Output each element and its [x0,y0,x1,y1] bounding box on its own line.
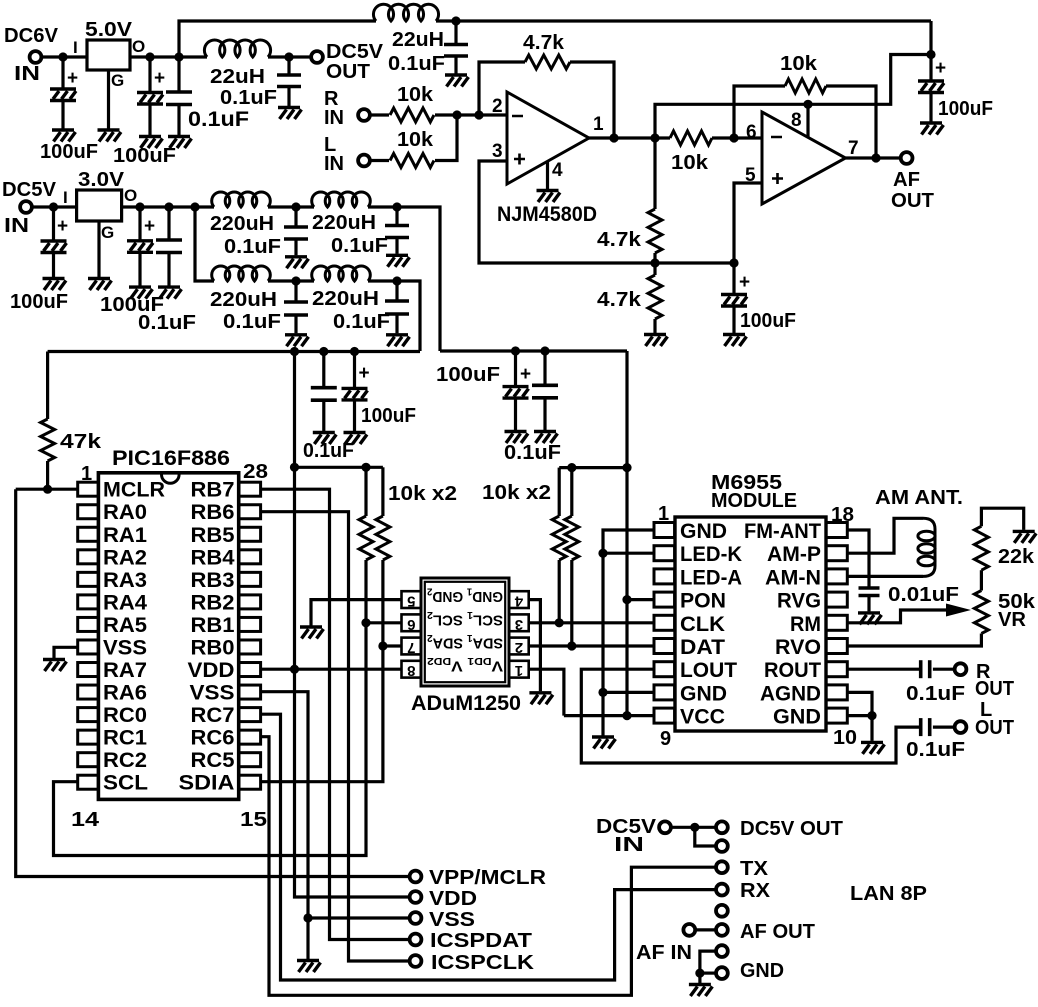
M6955 pin 18 FM-ANT box [826,523,847,538]
antenna coil AM [923,518,935,576]
wire [543,351,546,385]
PIC pin 1 MCLR box [78,482,99,496]
node junction [303,913,312,922]
wire [138,207,141,241]
svg-text:PON: PON [680,590,726,613]
ADuM pin 5 box [402,591,422,608]
wire 22k top to ground [981,508,1023,530]
PIC pin 19 VSS box [239,685,261,699]
PIC pin 26 RB5 box [239,527,261,541]
svg-text:RC0: RC0 [103,704,147,727]
svg-text:DAT: DAT [680,636,725,659]
svg-text:IN: IN [4,215,29,237]
svg-text:RA5: RA5 [103,614,147,637]
wire [370,113,389,116]
M6955 pin 16 AM-N box [826,569,847,584]
wire [933,725,954,728]
ADuM pin 1 box [509,661,529,678]
svg-text:2: 2 [492,96,503,117]
wire [52,253,55,278]
ground [386,255,410,266]
wire [867,596,870,612]
resistor R6 4.7k [648,275,662,319]
wire op-amp ground pin4 [546,162,549,190]
wire PIC VSS8 to ground [54,647,78,658]
svg-text:+: + [935,58,946,79]
wire M6955 PON [627,598,654,601]
svg-text:RVO: RVO [775,636,821,659]
M6955 pin 5 CLK box [654,615,675,630]
svg-text:OUT: OUT [975,678,1014,700]
node junction [598,549,607,558]
ground [445,75,469,87]
inductor L3 220uH [212,192,271,207]
svg-text:100uF: 100uF [938,98,993,120]
svg-text:10k: 10k [397,129,434,151]
resistor R9 10k [376,516,390,560]
wire pin5 [734,183,762,263]
svg-text:10k: 10k [397,84,434,106]
svg-text:+: + [359,363,370,384]
svg-text:1: 1 [515,662,523,679]
capacitor C19 0.1uF series [921,660,930,678]
terminal ICSPCLK [410,955,422,967]
svg-text:+: + [739,272,750,293]
capacitor C21 100uF [918,81,944,93]
inductor L4 220uH [312,192,371,207]
wire ADuM pin1 to VCC [529,669,564,715]
node junction [290,665,299,674]
svg-text:220uH: 220uH [312,288,379,310]
capacitor C11 0.1uF [385,226,409,238]
PIC pin 15 SDIA box [239,775,261,789]
ground [723,335,747,347]
ADuM pin 3 box [509,614,529,631]
wire [543,398,546,430]
svg-text:10: 10 [833,727,857,749]
svg-text:RX: RX [740,880,771,902]
ground [313,433,337,445]
wire PIC VSS26 [261,692,410,918]
svg-text:220uH: 220uH [312,212,376,234]
svg-text:RB2: RB2 [191,591,235,614]
terminal LAN pin5 [716,905,728,917]
inductor L2 22uH [373,4,438,21]
terminal VSS [410,912,422,924]
wire 5V output [130,55,207,58]
wire [32,205,76,208]
wire [294,239,297,255]
svg-text:G: G [101,223,114,242]
svg-text:IN: IN [324,153,344,175]
svg-text:AGND: AGND [760,682,821,705]
svg-text:10k x2: 10k x2 [388,483,457,505]
wire [167,207,170,240]
capacitor C17 0.1uF [532,385,558,398]
ground [386,335,410,347]
svg-text:SCL: SCL [103,772,148,795]
M6955 pin 14 RM box [826,615,847,630]
node junction [284,52,293,61]
resistor R10 10k [552,516,566,560]
svg-text:0.1uF: 0.1uF [223,311,281,333]
wire top rail [179,21,376,57]
IC U6 M6955 body [675,517,826,731]
resistor R4 10k [670,131,712,145]
svg-text:100uF: 100uF [40,141,98,163]
svg-text:O: O [124,186,137,205]
wire AGND [847,692,872,715]
svg-text:IN: IN [614,834,644,856]
terminal DC5V IN2 [20,201,32,213]
svg-text:14: 14 [71,809,100,831]
svg-text:RB6: RB6 [191,501,235,524]
PIC pin 5 RA3 box [78,572,99,586]
wire ADuM pin8 to PIC VDD [261,668,402,671]
svg-text:VPP/MCLR: VPP/MCLR [429,867,547,889]
svg-text:RB7: RB7 [191,479,235,502]
svg-text:0.1uF: 0.1uF [224,236,281,258]
VR wiper arrow [946,604,971,617]
PIC pin 21 RB0 box [239,640,261,654]
svg-text:RA7: RA7 [103,659,147,682]
node junction [392,202,401,211]
PIC pin 13 RC2 box [78,753,99,767]
svg-text:RA0: RA0 [103,501,147,524]
svg-text:RC5: RC5 [191,749,235,772]
wire ADuM pin3 to CLK [529,621,654,624]
wire [322,400,325,431]
svg-text:1: 1 [593,114,604,135]
wire [454,21,457,45]
capacitor C7 100uF [41,241,67,253]
node junction [695,969,704,978]
M6955 pin 12 ROUT box [826,662,847,677]
wire VR bottom to RVO [847,634,981,647]
wire [980,570,983,590]
ADuM pin 7 box [402,638,422,655]
wire [454,56,457,74]
svg-text:AM-N: AM-N [765,566,821,589]
node junction [319,347,328,356]
wire [268,55,311,58]
svg-text:ICSPCLK: ICSPCLK [431,952,535,974]
wire [370,159,389,162]
ground [168,137,192,149]
ground [344,433,368,445]
node junction [291,202,300,211]
node junction [49,202,58,211]
wire feedback2 [826,86,876,158]
terminal AF OUT [901,152,913,164]
wire [294,281,297,302]
svg-text:RC1: RC1 [103,727,147,750]
wire pin3 to divider rail [479,161,734,263]
svg-text:RB0: RB0 [191,636,235,659]
terminal LAN pin2 [716,840,728,852]
terminal DC6V IN [30,51,42,63]
svg-text:0.1uF: 0.1uF [906,683,965,705]
svg-text:22uH: 22uH [392,29,444,51]
node junction [867,711,876,720]
node junction [598,688,607,697]
resistor R11 10k [565,516,579,560]
svg-text:RA3: RA3 [103,569,147,592]
svg-text:TX: TX [740,858,769,880]
svg-text:G: G [111,71,124,90]
svg-text:OUT: OUT [326,61,370,83]
wire feedback2 [734,86,785,138]
ground [278,108,302,120]
node junction [378,641,387,650]
ground [537,191,561,203]
svg-text:ROUT: ROUT [764,659,821,682]
wire [368,207,440,351]
svg-text:I: I [73,38,78,57]
svg-text:VSS: VSS [429,909,475,931]
svg-text:6: 6 [407,616,415,633]
svg-text:AF: AF [893,169,920,191]
svg-text:MODULE: MODULE [711,490,797,512]
wire FM-ANT [847,530,869,588]
PIC pin 6 RA4 box [78,595,99,609]
wire [364,467,367,516]
svg-text:0.1uF: 0.1uF [906,739,965,761]
wire regulator ground [107,70,110,129]
wire [732,306,735,333]
wire SDA net [261,560,383,782]
capacitor C2 100uF [137,93,163,105]
ground [592,737,616,749]
svg-text:SDA1 SDA2: SDA1 SDA2 [427,632,503,652]
svg-text:100uF: 100uF [10,291,68,313]
wire VCC branch [625,351,628,716]
capacitor C13 0.1uF [385,301,409,314]
svg-text:8: 8 [791,110,802,131]
wire [700,971,716,974]
ground [861,742,885,754]
node junction [43,485,52,494]
ground [505,432,529,444]
M6955 pin 11 AGND box [826,685,847,700]
PIC pin 18 RC7 box [239,708,261,722]
resistor R8 10k [359,516,373,560]
node junction [567,641,576,650]
PIC pin 7 RA5 box [78,617,99,631]
svg-text:+: + [154,68,165,89]
svg-text:AM-P: AM-P [767,543,821,566]
svg-text:220uH: 220uH [210,289,277,311]
wire ADuM pin5 to ground [311,600,402,626]
capacitor C3 0.1uF [166,92,192,105]
PIC pin 11 RC0 box [78,708,99,722]
svg-text:0.1uF: 0.1uF [333,311,390,333]
terminal VDD [410,891,422,903]
ground [285,335,309,347]
M6955 pin 8 GND box [654,685,675,700]
resistor R1 10k [390,108,434,122]
wire SCL net [54,560,367,856]
wire [287,87,290,107]
wire pullup rail 2 [559,466,627,469]
svg-text:+: + [57,216,68,237]
svg-text:RB1: RB1 [191,614,235,637]
capacitor C12 0.1uF [284,302,308,315]
wire [167,253,170,286]
svg-text:DC5V OUT: DC5V OUT [740,818,843,840]
M6955 pin 17 AM-P box [826,546,847,561]
PIC pin 12 RC1 box [78,730,99,744]
wire [732,263,735,294]
node junction [452,110,461,119]
ground [529,693,553,705]
PIC pin 23 RB2 box [239,595,261,609]
svg-text:22uH: 22uH [210,66,265,88]
svg-text:0.1uF: 0.1uF [138,312,196,334]
wire elbow [695,827,715,846]
wire [148,104,151,135]
svg-text:RC2: RC2 [103,749,147,772]
terminal LAN AF IN [716,945,728,957]
svg-text:0.01uF: 0.01uF [888,584,959,606]
M6955 pin 2 LED-K box [654,546,675,561]
node junction [291,276,300,285]
terminal VPP/MCLR [410,871,422,883]
svg-text:100uF: 100uF [361,405,416,427]
PIC pin 2 RA0 box [78,505,99,519]
wire top right [929,21,932,81]
svg-text:3: 3 [492,141,503,162]
wire feedback [479,62,525,115]
wire [514,398,517,430]
PIC pin 17 RC6 box [239,730,261,744]
wire [177,105,180,136]
wire divider top [653,138,656,209]
svg-text:DC6V: DC6V [4,25,59,47]
ground [689,985,713,997]
ground [534,432,558,444]
ground [98,130,122,142]
ground [300,627,324,639]
ground [88,279,112,291]
PIC pin 8 VSS box [78,640,99,654]
svg-text:47k: 47k [60,431,102,453]
svg-text:GND: GND [773,706,821,729]
svg-text:2: 2 [515,639,523,656]
wire AM-P to coil [847,518,923,553]
wire RB6 to ICSPCLK [261,512,410,961]
svg-text:RC7: RC7 [191,704,235,727]
node junction [871,153,880,162]
svg-text:VDD: VDD [188,659,235,682]
wire [558,560,561,623]
wire [435,115,457,161]
svg-text:AM ANT.: AM ANT. [875,487,963,509]
svg-text:AF OUT: AF OUT [740,921,815,943]
wire [52,207,55,241]
M6955 pin 7 LOUT box [654,662,675,677]
node junction [609,133,618,142]
svg-text:9: 9 [660,728,671,750]
svg-text:VR: VR [998,609,1027,631]
op-amp U1B [762,112,846,204]
node junction [729,258,738,267]
svg-text:OUT: OUT [891,190,934,212]
wire [306,918,309,959]
svg-text:22k: 22k [998,546,1035,568]
svg-text:RA4: RA4 [103,591,147,614]
svg-text:AF IN: AF IN [636,942,692,964]
svg-text:NJM4580D: NJM4580D [497,203,597,226]
capacitor C16 100uF [503,387,529,399]
ground [920,123,944,135]
wire [395,207,398,226]
regulator U2 5.0V box [87,40,130,70]
node junction [540,346,549,355]
M6955 pin 6 DAT box [654,639,675,654]
wire GND10 [847,716,872,741]
wire [570,560,573,646]
svg-text:RA2: RA2 [103,546,147,569]
wire output2 [846,156,901,159]
M6955 pin 13 RVO box [826,639,847,654]
svg-text:OUT: OUT [975,717,1014,739]
ground [297,961,321,973]
capacitor C6 100uF [721,295,747,307]
node junction [164,202,173,211]
wire [148,57,151,93]
IC U5 PIC16F886 body [98,473,238,800]
svg-text:+: + [144,216,155,237]
wire M6955 VCC [564,714,654,717]
wire M6955 GND8 [603,691,654,694]
svg-text:RB5: RB5 [191,524,235,547]
svg-text:RA6: RA6 [103,682,147,705]
wire [368,281,420,351]
wire [653,319,656,333]
wire [558,468,561,516]
node junction [290,463,299,472]
node junction [474,110,483,119]
wire [353,352,356,389]
svg-text:0.1uF: 0.1uF [220,87,277,109]
terminal L OUT [955,721,967,733]
PIC pin 28 RB7 box [239,482,261,496]
wire output [589,136,670,139]
svg-text:RB3: RB3 [191,569,235,592]
svg-text:SDIA: SDIA [179,772,235,795]
wire [294,315,297,333]
regulator U3 3.0V box [77,190,122,221]
inductor L6 220uH [312,266,371,281]
wire [712,136,762,139]
PIC pin 22 RB1 box [239,617,261,631]
inductor L5 220uH [212,266,271,281]
ground [1013,531,1036,543]
wire regulator ground [97,221,100,277]
terminal LAN TX [716,861,728,873]
resistor R14 47k [41,419,55,461]
wire [395,281,398,301]
svg-text:100uF: 100uF [113,145,176,167]
svg-text:4: 4 [514,593,523,610]
svg-text:VDD: VDD [429,888,477,910]
svg-text:+: + [67,68,78,89]
resistor R7 10k [785,79,826,93]
svg-text:RC6: RC6 [191,727,235,750]
svg-text:0.1uF: 0.1uF [331,235,388,257]
node junction [135,202,144,211]
